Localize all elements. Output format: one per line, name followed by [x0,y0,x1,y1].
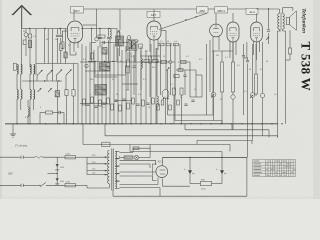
switch S1 [38,182,65,187]
node pot [260,93,265,98]
wire [70,41,78,55]
wire [257,9,280,14]
coil hatched [55,91,60,97]
coil L1 [17,65,18,75]
terminal [21,184,23,187]
resistor [13,63,16,70]
label T538W [298,42,313,92]
capacitor C el1 [184,157,195,177]
wire [283,29,286,124]
coil [110,29,111,39]
node [29,80,59,81]
node [142,61,158,62]
resistor [61,42,64,49]
wire [266,33,269,44]
wire [176,69,196,71]
resistor [181,60,187,63]
wire [190,62,202,97]
wire [255,44,257,96]
resistor [173,88,176,95]
wire [230,41,236,62]
terminal [21,156,23,159]
wire [221,51,223,124]
tube V4 ABC1 [227,22,239,42]
wire bus [197,141,252,145]
switch [48,88,52,92]
svg-text:0,2: 0,2 [260,69,263,71]
svg-text:50: 50 [23,31,25,33]
svg-text:0,1: 0,1 [244,91,247,93]
wire bus [185,124,269,138]
capacitor [183,75,186,76]
svg-text:0,1: 0,1 [237,65,240,67]
svg-text:GW: GW [8,172,13,176]
resistor [139,44,143,48]
switch [47,70,53,76]
wire [252,44,254,141]
resistor [149,56,152,97]
svg-text:500: 500 [126,90,129,92]
svg-text:6: 6 [90,94,91,96]
svg-text:0,1: 0,1 [164,97,167,99]
label [164,97,182,99]
svg-text:AF7: AF7 [151,13,157,17]
wire bus [168,55,214,115]
svg-text:50: 50 [180,97,182,99]
coil L4 [21,90,22,100]
svg-text:2M: 2M [46,39,49,41]
wire [262,42,264,136]
wire loop [92,28,117,62]
wire [118,30,120,46]
ground [10,124,16,137]
switch [66,69,72,75]
resistor R long [255,74,258,94]
resistor [91,53,94,59]
wire [47,29,49,64]
wire [109,39,111,46]
label Telefunken [301,8,307,33]
wire [37,75,66,90]
svg-text:0,5: 0,5 [175,41,178,43]
resistor [133,147,139,150]
node [85,64,88,67]
wire [117,61,159,63]
svg-text:T 538 W: T 538 W [298,42,313,92]
wire [213,51,215,121]
node pot [211,92,216,97]
wire [113,157,247,196]
wire [215,13,217,24]
wire [73,9,75,20]
svg-text:5000: 5000 [60,167,64,169]
wire bus [175,75,222,124]
wire [52,29,54,64]
wire bus [105,124,278,138]
svg-text:40: 40 [220,99,222,101]
node [16,123,282,124]
wire [82,42,156,124]
capacitor trimmer [23,29,28,57]
node pot [231,95,235,130]
wire [23,184,38,186]
coil [157,48,158,124]
svg-text:0,7: 0,7 [225,57,228,59]
resistor [127,52,130,90]
capacitor [98,28,101,47]
coil [29,40,32,48]
svg-text:0,1: 0,1 [25,117,28,119]
node [185,16,196,21]
capacitor [59,29,62,44]
coil hatched [102,48,107,55]
svg-text:0,1: 0,1 [33,36,36,38]
wire [120,156,125,158]
wire [179,44,181,70]
wire [283,8,293,14]
svg-text:AF7: AF7 [74,9,80,13]
wire [5,123,124,125]
wire [130,50,136,62]
wire [162,157,164,165]
coil T osc [126,40,139,52]
coil [141,50,142,90]
wire heater return [120,178,161,197]
wire [40,113,64,124]
label AF7 [71,7,84,14]
wire [208,8,257,10]
transformer T1 mains [108,149,117,191]
resistor [98,35,105,38]
wire [160,44,166,95]
coil [28,100,29,124]
wire [17,74,21,89]
wire [120,160,156,168]
wire [207,40,211,115]
svg-text:0,1: 0,1 [143,79,146,81]
wire [278,29,282,138]
tube V1 AF7 [68,21,83,43]
resistor [180,88,183,95]
svg-text:0,5: 0,5 [68,45,71,47]
capacitor [242,44,245,115]
label GW [8,172,13,176]
capacitor [55,170,64,185]
svg-text:1,5: 1,5 [131,56,134,58]
svg-text:0,5: 0,5 [274,94,277,96]
wire [81,27,117,29]
svg-text:100: 100 [90,79,93,81]
switch [57,69,63,75]
wire [92,42,128,44]
wire B+ [163,156,247,158]
label [160,41,177,43]
wire [158,61,190,63]
svg-text:AL4: AL4 [249,10,255,14]
wire [76,156,88,158]
coil L6 [34,65,35,75]
wire [243,57,248,59]
wire [150,39,158,62]
wire [65,58,67,64]
svg-text:0,2: 0,2 [112,79,115,81]
svg-text:2M: 2M [216,55,219,57]
wire [80,56,160,84]
svg-text:300: 300 [152,67,155,69]
wire [84,8,197,10]
wire [120,172,156,180]
resistor R long [232,62,235,92]
svg-text:50: 50 [167,41,169,43]
wire [161,31,166,45]
wire [232,13,234,22]
wire [96,9,98,38]
svg-text:50: 50 [116,94,118,96]
wire [35,29,37,76]
svg-text:50: 50 [249,69,251,71]
svg-text:0,3: 0,3 [199,59,202,61]
node [94,61,113,62]
coil L8 [34,90,35,100]
capacitor [267,30,270,31]
fuse F1 [65,156,76,159]
wire [43,156,65,158]
label ABC1 [215,7,228,13]
svg-text:80: 80 [266,61,268,63]
svg-text:1: 1 [126,107,127,109]
wire [29,48,31,68]
svg-text:20: 20 [148,107,150,109]
wire [163,179,191,187]
capacitor C el2 [216,157,227,177]
coil L5 [30,65,31,75]
switch [37,70,43,76]
wire [212,50,233,52]
resistor R long [221,62,224,92]
speaker [286,11,296,30]
resistor [59,44,62,50]
wire [119,9,121,30]
coil L3 [17,90,18,100]
wire [30,74,34,89]
svg-text:ABC1: ABC1 [217,9,225,13]
wire [174,44,176,90]
wire [22,80,62,82]
wire [36,63,78,65]
wire [30,99,34,124]
node [169,60,172,63]
svg-text:1,5A: 1,5A [66,181,71,184]
tube V6 AZ1 [152,164,167,180]
svg-text:4: 4 [40,107,41,109]
resistor [159,43,179,46]
resistor [124,156,133,159]
resistor [161,100,179,110]
wire [83,24,97,26]
coil [64,52,67,58]
coil L7 [30,90,31,100]
transformer T2 output [278,13,285,31]
coil hatched [116,30,124,56]
svg-text:50: 50 [120,61,122,63]
wire [0,184,21,186]
fuse F2 [65,184,76,187]
svg-text:100: 100 [55,39,58,41]
wire [77,64,79,124]
resistor [125,66,129,73]
wire bus [130,145,222,158]
svg-text:5000: 5000 [60,181,64,183]
label 27mA [15,145,28,148]
node [95,38,99,42]
svg-text:0,1: 0,1 [83,59,86,61]
wire [153,9,155,21]
svg-text:0,1: 0,1 [160,41,163,43]
svg-text:AB2: AB2 [199,9,205,13]
transformer taps [115,151,119,188]
node [189,157,222,158]
svg-text:Telefunken: Telefunken [301,8,307,33]
svg-text:0,5: 0,5 [194,89,197,91]
wire [22,28,67,30]
wire AVC diagonal [159,13,207,29]
wire [184,70,186,95]
wire [213,36,219,55]
svg-text:0,1A: 0,1A [66,153,71,156]
capacitor [107,28,110,62]
capacitor [132,55,135,95]
svg-text:27 mA amp.: 27 mA amp. [15,145,28,148]
tube V2 AF7 [147,21,161,40]
svg-text:0,1: 0,1 [145,51,148,53]
tube V3 AB1 [210,24,223,37]
node pot [250,93,255,98]
wire [73,64,75,124]
wire [268,8,269,29]
capacitor [246,58,249,157]
resistor/capacitor row [83,97,160,111]
wire [76,185,110,188]
svg-text:0,5: 0,5 [102,107,105,109]
label AZ1 [158,160,164,164]
wire [48,173,58,174]
wire [52,64,54,82]
wire [289,30,291,48]
wire [23,156,35,158]
wire [190,177,222,184]
wire [66,96,68,124]
wire [286,54,291,60]
antenna [12,5,33,29]
node [91,28,110,29]
wire [56,81,58,124]
value labels [23,31,277,119]
label AF7 [147,11,160,17]
wire [120,148,134,152]
resistor [117,32,120,40]
resistor [178,69,183,72]
wire [254,41,260,60]
wire [63,31,68,42]
resistor [28,34,31,38]
svg-text:0,1: 0,1 [138,94,141,96]
wire [166,95,182,124]
wire [232,42,234,95]
wire [80,101,132,104]
label [66,153,71,156]
wire bus [83,124,230,152]
wire [256,14,258,23]
resistor [174,75,179,78]
label AB1 [197,7,209,13]
switch mains [102,142,110,146]
label [126,79,146,92]
wire [133,145,150,158]
ground bus [5,123,278,125]
wire [60,50,62,63]
node [29,28,61,29]
selector taps [87,155,107,175]
capacitor [184,100,194,105]
switch [167,67,170,70]
resistor R field [201,180,212,191]
resistor [161,60,167,63]
capacitor [57,111,64,114]
node [127,36,131,40]
svg-text:0,1: 0,1 [186,56,189,58]
svg-text:50: 50 [163,56,165,58]
label [66,181,71,184]
wire [29,29,31,35]
tube V5 AL4 [251,22,263,42]
socket pins [162,90,169,100]
wire [17,99,21,124]
coil hatched [100,63,111,72]
lamp [134,155,139,160]
label AL4 [246,8,258,14]
wire [65,29,67,53]
wire cord [35,156,43,158]
svg-text:Rfld: Rfld [201,180,205,182]
wire [21,29,23,68]
wire [44,29,46,64]
resistor [288,48,291,54]
table tube data [253,160,296,177]
resistor [40,111,57,114]
wire [0,156,21,158]
switch [38,88,42,92]
wire [86,157,88,174]
capacitor [103,41,104,44]
wire [246,42,248,58]
coil L2 [21,65,22,75]
resistor [72,90,75,97]
wire [88,60,117,62]
svg-text:0,1: 0,1 [170,84,173,86]
coil hatched [95,85,107,96]
wire [70,52,76,55]
wire [170,44,172,95]
capacitor [55,157,64,170]
capacitor [56,29,59,64]
resistor [65,90,68,96]
resistor [144,59,158,62]
wire [95,61,117,77]
